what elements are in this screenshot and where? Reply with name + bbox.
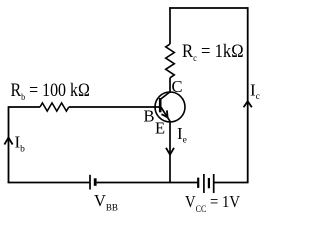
svg-text:Rc = 1kΩ: Rc = 1kΩ bbox=[182, 42, 244, 64]
battery VBB long plate bbox=[89, 175, 91, 190]
svg-text:VCC = 1V: VCC = 1V bbox=[185, 192, 240, 214]
wire top (collector top to right rail) bbox=[169, 7, 248, 9]
wire left rail bbox=[8, 106, 10, 183]
transistor Q1 base bar bbox=[159, 98, 162, 112]
svg-text:Ic: Ic bbox=[250, 81, 260, 103]
wire emitter down bbox=[169, 122, 171, 184]
wire base right of Rb into transistor bbox=[69, 106, 160, 108]
svg-text:VBB: VBB bbox=[94, 191, 118, 213]
wire right rail bbox=[247, 7, 249, 183]
battery VCC plate 1 short bbox=[197, 178, 199, 188]
transistor Q1 emitter arrowhead bbox=[162, 110, 168, 117]
transistor Q1 collector diagonal bbox=[160, 92, 170, 100]
battery VBB short plate bbox=[94, 178, 97, 186]
svg-text:Ib: Ib bbox=[15, 133, 26, 155]
arrow Ie down on emitter wire bbox=[166, 148, 174, 155]
wire bottom middle segment bbox=[97, 182, 198, 184]
arrow Ib up on left rail bbox=[4, 138, 12, 145]
battery VCC plate 3 short bbox=[208, 178, 210, 188]
battery VCC plate 2 long bbox=[203, 174, 205, 193]
wire bottom right segment bbox=[215, 182, 249, 184]
wire base from left rail to transistor bbox=[9, 106, 41, 108]
resistor RC zigzag bbox=[166, 44, 175, 78]
arrow Ic up on right rail bbox=[244, 101, 252, 107]
svg-text:C: C bbox=[172, 77, 183, 96]
svg-text:E: E bbox=[155, 119, 165, 138]
svg-text:B: B bbox=[144, 107, 155, 126]
resistor Rb zigzag bbox=[40, 103, 69, 111]
wire collector below Rc to transistor bbox=[169, 78, 171, 93]
wire collector above Rc bbox=[169, 7, 171, 44]
svg-text:Ie: Ie bbox=[177, 124, 187, 146]
transistor Q1 emitter diagonal bbox=[160, 106, 171, 122]
svg-text:Rb = 100 kΩ: Rb = 100 kΩ bbox=[11, 81, 90, 103]
battery VCC plate 4 long bbox=[213, 174, 215, 193]
wire bottom left segment bbox=[8, 182, 90, 184]
transistor Q1 circle bbox=[155, 92, 185, 122]
